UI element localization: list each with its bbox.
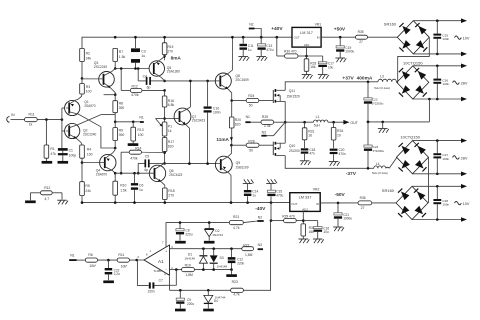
ground C12 (bar) xyxy=(226,270,237,277)
capacitor C1 100p xyxy=(58,148,76,158)
resistor R24 50 xyxy=(232,94,259,108)
node R31 tap xyxy=(303,121,306,124)
svg-text:2,2u: 2,2u xyxy=(114,272,120,276)
svg-text:100: 100 xyxy=(138,133,144,137)
svg-text:N1: N1 xyxy=(70,253,74,257)
wire B1 right to B2 xyxy=(397,37,430,82)
svg-text:SR160: SR160 xyxy=(382,188,395,193)
svg-text:1000u: 1000u xyxy=(345,50,354,54)
svg-text:R21: R21 xyxy=(233,215,239,219)
capacitor C26 100n xyxy=(433,65,449,101)
wire VAS row to Q8 base xyxy=(165,80,216,82)
svg-text:2SA970: 2SA970 xyxy=(84,104,96,108)
node pin2 feedback xyxy=(175,268,178,271)
wire Q11 source down xyxy=(284,101,286,122)
svg-text:R28: R28 xyxy=(248,139,254,143)
current arrow 8mA xyxy=(163,55,181,61)
svg-text:R12: R12 xyxy=(44,186,50,190)
node ADJ/R30/R33 xyxy=(298,55,308,58)
node rail R18 xyxy=(164,201,167,204)
svg-text:+: + xyxy=(165,250,167,254)
transistor Q1 2SA970 xyxy=(65,99,101,127)
node C4/Q5c/VAS row xyxy=(163,80,166,83)
inductor L3 5uH xyxy=(374,75,396,90)
svg-text:-37V: -37V xyxy=(346,171,357,177)
mosfet Q10 2SJ200 xyxy=(273,142,300,156)
wire Q5 base line xyxy=(115,68,154,70)
capacitor C11 1u xyxy=(240,37,254,56)
svg-text:R5: R5 xyxy=(85,184,89,188)
node R14 right xyxy=(163,151,166,154)
node rail C15/drop xyxy=(270,201,273,204)
wire B4 top rail xyxy=(412,185,461,187)
svg-text:270: 270 xyxy=(168,194,174,198)
ground C15 (flipped) xyxy=(266,179,277,183)
svg-text:24k: 24k xyxy=(86,57,92,61)
node R29 left xyxy=(270,219,273,222)
ground C22 (bar) xyxy=(103,280,114,283)
svg-text:2SK1529: 2SK1529 xyxy=(287,94,300,98)
capacitor C4 6p xyxy=(143,74,151,89)
resistor R5 24k xyxy=(80,163,91,196)
capacitor C19 1000u xyxy=(336,37,354,57)
net N3 marker (mid) xyxy=(261,123,284,137)
wire pin3 line xyxy=(170,248,242,250)
svg-text:10k*: 10k* xyxy=(121,264,128,268)
terminal arrow B1 top xyxy=(461,18,467,23)
svg-text:L1: L1 xyxy=(316,115,320,119)
resistor R13 100 xyxy=(131,122,144,141)
node rail R10 xyxy=(114,201,117,204)
wire ADJ2 down xyxy=(296,211,303,224)
node output junction xyxy=(284,121,287,124)
svg-text:390: 390 xyxy=(119,106,125,110)
svg-text:-40V: -40V xyxy=(255,206,266,212)
node D3 top xyxy=(212,247,215,250)
svg-text:100n: 100n xyxy=(442,82,449,86)
node A1 output xyxy=(135,259,138,262)
svg-text:C5: C5 xyxy=(145,154,149,158)
svg-text:1N4148: 1N4148 xyxy=(217,264,228,268)
ac label 10V (B1) xyxy=(455,36,470,41)
resistor R19 1.8M xyxy=(182,264,232,278)
svg-text:LM 317: LM 317 xyxy=(300,31,313,35)
svg-text:1.5k: 1.5k xyxy=(119,55,126,59)
resistor R4 100 xyxy=(80,145,93,158)
svg-text:C6: C6 xyxy=(139,183,143,187)
svg-text:IN: IN xyxy=(317,36,320,40)
capacitor C10 100n xyxy=(204,80,221,164)
node Q3 collector xyxy=(114,67,117,70)
svg-text:2SC2240: 2SC2240 xyxy=(94,65,108,69)
wire B2 bottom to ground rail xyxy=(428,98,431,122)
svg-text:R23: R23 xyxy=(232,280,238,284)
resistor R11 10k* (servo) xyxy=(117,253,144,268)
transistor Q7 2SC3423 xyxy=(165,107,206,164)
svg-text:16k: 16k xyxy=(309,230,315,234)
svg-text:R7: R7 xyxy=(119,50,123,54)
net N3 marker (servo) xyxy=(258,243,263,250)
ground C19 xyxy=(335,58,346,62)
wire Q10 source up xyxy=(284,122,286,143)
svg-text:2SC1609: 2SC1609 xyxy=(235,78,249,82)
svg-text:R9: R9 xyxy=(119,128,123,132)
svg-text:Q10: Q10 xyxy=(289,144,296,148)
wire B3 right to B4 xyxy=(428,157,430,203)
svg-text:100: 100 xyxy=(86,90,92,94)
svg-text:R20: R20 xyxy=(235,118,241,122)
wire B2 top rail xyxy=(413,65,461,67)
wire OUT line xyxy=(285,121,313,123)
svg-text:28V: 28V xyxy=(461,82,468,86)
resistor R17 620 xyxy=(162,136,174,152)
label -37V xyxy=(346,171,357,177)
capacitor C20 470n xyxy=(330,140,346,161)
op-amp A1 TL081 xyxy=(137,240,173,276)
resistor R9 390 xyxy=(113,122,124,141)
node C24 bottom on -37V xyxy=(367,167,370,170)
mosfet Q11 2SK1529 xyxy=(273,89,300,103)
ground C13 xyxy=(256,57,267,61)
wire B3 top rail xyxy=(413,140,462,142)
svg-text:4,7: 4,7 xyxy=(44,197,49,201)
capacitor C5 6p xyxy=(137,154,150,174)
resistor R18 270 xyxy=(163,188,175,200)
wire R18 to -40V rail xyxy=(164,200,166,203)
resistor R8 390 xyxy=(113,95,124,113)
svg-text:1N4148: 1N4148 xyxy=(184,256,195,260)
ground R1 (bar) xyxy=(42,158,53,163)
node C21 xyxy=(337,202,340,205)
svg-text:IN: IN xyxy=(316,202,319,206)
svg-text:+50V: +50V xyxy=(334,26,346,32)
svg-text:OUT: OUT xyxy=(291,202,297,206)
svg-text:D3: D3 xyxy=(220,256,224,260)
ground C1 (bar) xyxy=(58,155,69,163)
ac label 28V (B3) xyxy=(453,156,468,161)
wire B3 bottom rail xyxy=(413,173,462,175)
svg-text:R15: R15 xyxy=(168,45,174,49)
svg-text:5uH (0.1aw): 5uH (0.1aw) xyxy=(374,86,390,90)
svg-text:R17: R17 xyxy=(168,140,174,144)
svg-text:390: 390 xyxy=(119,133,125,137)
ground lift resistor R12 4.7 xyxy=(30,186,62,201)
node D2 tap xyxy=(208,221,211,224)
wire pin2 line xyxy=(170,269,182,271)
svg-text:OUT: OUT xyxy=(350,121,358,125)
wire +40V top rail xyxy=(82,37,292,48)
svg-text:R10: R10 xyxy=(120,183,126,187)
svg-text:R19: R19 xyxy=(185,264,191,268)
capacitor C22 2.2u xyxy=(105,260,120,280)
svg-text:R12: R12 xyxy=(132,85,138,89)
transistor Q9 2SB1109 xyxy=(215,145,248,202)
svg-text:2SA970: 2SA970 xyxy=(96,173,108,177)
svg-text:2SB1109: 2SB1109 xyxy=(236,165,249,169)
wire Q1/Q2 base vertical xyxy=(62,108,66,131)
resistor R2 24k xyxy=(80,48,92,61)
svg-text:OUT: OUT xyxy=(294,36,300,40)
svg-text:10u: 10u xyxy=(323,230,329,234)
terminal arrow B4 bottom xyxy=(461,217,467,222)
svg-text:6p: 6p xyxy=(147,86,151,90)
capacitor C6 1u xyxy=(131,172,144,203)
node C9 tap xyxy=(179,289,182,292)
svg-text:2.4k: 2.4k xyxy=(264,124,271,128)
resistor R12 470k xyxy=(130,85,142,97)
node R4/R5/Q4 base xyxy=(81,161,84,164)
wire R30 left lead xyxy=(277,37,285,56)
node R30 drop xyxy=(276,36,279,39)
node R14/Q6 base line xyxy=(120,172,123,175)
svg-text:2SC2240: 2SC2240 xyxy=(83,133,97,137)
node rail C14 xyxy=(246,201,249,204)
node N1 junction xyxy=(114,121,117,124)
node C12 top xyxy=(230,247,233,250)
capacitor C8 220u xyxy=(176,223,193,241)
svg-text:270: 270 xyxy=(168,49,174,53)
svg-text:2SC3423: 2SC3423 xyxy=(169,173,183,177)
node R34 tap xyxy=(332,121,335,124)
svg-text:27: 27 xyxy=(359,40,363,44)
svg-text:220n: 220n xyxy=(237,261,244,265)
node Q9e rail xyxy=(230,201,233,204)
diode D1 1N4148 xyxy=(184,249,207,270)
bridge rectifier B3 10CTQ150 xyxy=(397,134,429,173)
svg-text:R11: R11 xyxy=(29,113,35,117)
node base tie xyxy=(61,118,64,121)
resistor R36 27 xyxy=(358,196,396,210)
node Q8e/R24/R20 xyxy=(230,99,233,102)
svg-text:470u: 470u xyxy=(276,194,283,198)
svg-text:1N4744: 1N4744 xyxy=(212,233,223,237)
node Q4 collector xyxy=(114,172,117,175)
svg-text:6p: 6p xyxy=(144,168,148,172)
wire pin7 supply xyxy=(166,223,229,247)
transistor Q5 2SA1360 xyxy=(149,57,180,81)
node D3 bottom xyxy=(212,268,215,271)
svg-text:ADJ: ADJ xyxy=(304,43,310,47)
svg-text:R18: R18 xyxy=(168,189,174,193)
ground C14 (flipped) xyxy=(243,179,254,183)
transistor Q6 2SC3423 xyxy=(138,163,182,188)
svg-text:50: 50 xyxy=(249,148,253,152)
svg-text:+37V: +37V xyxy=(342,75,354,81)
svg-text:R24: R24 xyxy=(248,94,254,98)
svg-text:R25: R25 xyxy=(262,115,268,119)
wire R5 to -40V rail xyxy=(81,196,83,203)
capacitor C18 47n xyxy=(301,140,316,161)
wire R17 to R14 node xyxy=(164,152,166,164)
svg-text:28V: 28V xyxy=(461,156,468,160)
wire input line xyxy=(37,119,62,121)
bridge rectifier B2 10CTQ150 xyxy=(397,61,429,99)
terminal arrow B1 bottom xyxy=(461,52,467,57)
capacitor C14 1u xyxy=(244,184,259,203)
node R13 tap xyxy=(132,121,135,124)
svg-text:10CTQ150: 10CTQ150 xyxy=(403,61,423,66)
svg-text:R22: R22 xyxy=(243,244,249,248)
svg-text:LM 337: LM 337 xyxy=(299,196,312,200)
svg-text:R2: R2 xyxy=(86,52,90,56)
svg-text:470k: 470k xyxy=(130,156,138,160)
svg-text:N1: N1 xyxy=(246,115,250,119)
svg-text:+40V: +40V xyxy=(271,26,283,32)
svg-text:4,7k: 4,7k xyxy=(233,293,240,297)
wire L3 to bridge2 xyxy=(395,81,398,84)
ground C20 xyxy=(329,162,340,166)
svg-text:R29 470: R29 470 xyxy=(282,214,295,218)
node C10 on bias row xyxy=(206,162,209,165)
resistor R34 10 xyxy=(331,122,343,140)
resistor R16 6.8k xyxy=(162,90,174,107)
svg-text:4,7k: 4,7k xyxy=(233,226,240,230)
ground R33 xyxy=(302,71,313,79)
resistor R1 47k xyxy=(44,145,56,158)
resistor R15 270 xyxy=(162,36,173,55)
label +37V 400mA xyxy=(342,75,372,81)
capacitor C16 10u xyxy=(303,221,329,239)
wire R12 right lead xyxy=(142,89,165,91)
svg-text:620: 620 xyxy=(235,123,241,127)
resistor R30 470 xyxy=(284,49,298,58)
wire R16 to P1 xyxy=(164,107,166,122)
regulator VR2 LM337 xyxy=(290,187,320,211)
svg-text:16: 16 xyxy=(308,134,312,138)
svg-text:VR1: VR1 xyxy=(315,23,322,27)
svg-text:R30 470: R30 470 xyxy=(284,49,297,53)
label +40V xyxy=(271,26,283,32)
svg-text:2SC3423: 2SC3423 xyxy=(192,119,206,123)
wire R10 bottom xyxy=(114,195,116,202)
ground C8 (bar) xyxy=(175,241,186,244)
capacitor C15 470u xyxy=(267,184,283,203)
svg-text:C7: C7 xyxy=(159,278,163,282)
terminal arrow B3 bottom xyxy=(461,172,467,177)
diode D3 1N4148 xyxy=(210,249,228,270)
bridge rectifier B4 SR160 xyxy=(382,186,428,219)
wire LM337 IN line xyxy=(320,202,358,204)
svg-text:1u: 1u xyxy=(141,54,145,58)
resistor R3 100 xyxy=(80,78,92,94)
resistor R25 2.4k xyxy=(251,115,286,128)
svg-text:2SJ200: 2SJ200 xyxy=(289,149,300,153)
node R12 drop xyxy=(120,67,123,70)
svg-text:R4: R4 xyxy=(87,148,91,152)
terminal OUT arrow xyxy=(343,120,358,125)
svg-text:R11: R11 xyxy=(118,253,124,257)
wire R1 drop xyxy=(45,120,47,145)
capacitor C17 10u xyxy=(307,56,335,74)
svg-text:620: 620 xyxy=(168,145,174,149)
ground C16 xyxy=(313,239,324,243)
net N1 marker (servo) xyxy=(69,253,85,261)
svg-text:R16: R16 xyxy=(168,99,174,103)
resistor R14 470k xyxy=(121,147,165,161)
ground C17 xyxy=(318,75,329,79)
svg-text:R1: R1 xyxy=(50,147,54,151)
svg-text:10k*: 10k* xyxy=(89,264,96,268)
node R6/R11/C22 xyxy=(107,259,110,262)
svg-text:SR160: SR160 xyxy=(384,22,397,27)
capacitor C12 220n xyxy=(228,249,245,270)
capacitor C24 3*2200u xyxy=(364,122,385,168)
node bias row / Q6 collector xyxy=(163,162,166,165)
svg-text:220u: 220u xyxy=(187,302,194,306)
svg-text:C3: C3 xyxy=(141,49,145,53)
ground D4 (bar) xyxy=(203,309,214,312)
svg-text:R6: R6 xyxy=(88,253,92,257)
svg-text:1,8M: 1,8M xyxy=(245,253,253,257)
svg-text:10CTQ150: 10CTQ150 xyxy=(400,134,420,139)
capacitor C28 100n xyxy=(433,185,449,221)
node R20/R28/Q9c xyxy=(230,144,233,147)
ground C21 xyxy=(333,227,344,231)
capacitor C21 1000u xyxy=(334,203,352,227)
svg-text:TL081: TL081 xyxy=(153,269,162,273)
wire L1 to OUT arrow xyxy=(328,121,345,123)
capacitor C27 100n xyxy=(433,139,449,175)
node R2/R3/Q3 base xyxy=(81,77,84,80)
ground centre xyxy=(378,129,389,133)
ground bar (signal) xyxy=(25,200,36,203)
svg-text:50: 50 xyxy=(249,104,253,108)
node R12/Q5c xyxy=(163,89,166,92)
svg-text:6.8k: 6.8k xyxy=(168,103,175,107)
node Q8c rail xyxy=(231,36,234,39)
current arrow 11mA xyxy=(216,128,233,145)
node Q7e on bias row xyxy=(188,162,191,165)
resistor R21 4.7k xyxy=(229,215,257,230)
svg-text:47n: 47n xyxy=(309,151,315,155)
svg-text:1000u: 1000u xyxy=(343,217,352,221)
svg-text:R36: R36 xyxy=(360,196,366,200)
node C23 top xyxy=(367,81,370,84)
wire B1 top rail xyxy=(413,20,461,22)
wire Q2 collector to R8 bottom xyxy=(101,114,115,116)
svg-text:3*2200u: 3*2200u xyxy=(372,101,384,105)
resistor R23 4.7k xyxy=(231,280,244,297)
svg-text:R13: R13 xyxy=(137,128,143,132)
resistor R10 1.5k xyxy=(113,173,127,195)
input connector IN xyxy=(7,113,25,122)
transistor Q3 2SC2240 xyxy=(82,61,115,95)
node R9/Q1c/Q4e xyxy=(114,147,117,150)
ground C18 xyxy=(300,161,311,165)
svg-text:N1: N1 xyxy=(139,115,143,119)
node ADJ2 junction xyxy=(302,219,305,222)
svg-text:470u: 470u xyxy=(266,48,273,52)
wire R8 to N1 node xyxy=(114,113,116,122)
node D1 top xyxy=(202,247,205,250)
wire LM317 IN line xyxy=(321,36,355,38)
resistor R32 16k xyxy=(301,224,315,236)
label +50V xyxy=(334,26,346,32)
net N1 marker (upper) xyxy=(139,115,143,123)
svg-text:100: 100 xyxy=(87,152,93,156)
svg-text:100n: 100n xyxy=(442,157,449,161)
svg-text:1u: 1u xyxy=(139,188,143,192)
node rail R7 xyxy=(114,36,117,39)
net N2 marker (top) xyxy=(249,23,261,38)
ground R32 xyxy=(299,236,310,243)
svg-text:L4: L4 xyxy=(376,162,380,166)
svg-text:-50V: -50V xyxy=(335,192,346,198)
wire C4 right lead xyxy=(151,80,165,82)
capacitor C9 220u xyxy=(176,290,194,308)
svg-text:100n: 100n xyxy=(442,203,449,207)
svg-text:220u: 220u xyxy=(185,232,192,236)
